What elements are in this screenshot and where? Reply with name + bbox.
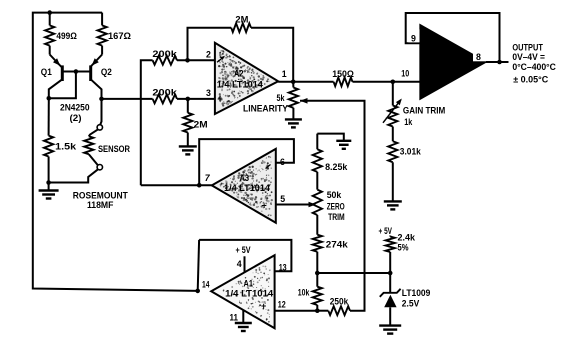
node base junction [74,69,79,74]
svg-text:+ 5V: + 5V [236,245,251,256]
svg-text:2M: 2M [235,15,248,26]
ground below 2M [179,146,197,154]
svg-text:118MF: 118MF [87,200,114,211]
svg-text:0°C–400°C: 0°C–400°C [512,62,556,73]
node 274k bottom [315,271,320,276]
transistor Q1 [50,55,62,68]
A1 pin 4 supply stub [244,256,246,273]
potentiometer 5k LINEARITY [292,82,294,88]
op-amp A3 body [212,149,276,223]
svg-text:200k: 200k [152,87,177,98]
node top rail junction [47,10,52,15]
transistor Q2 [90,55,102,68]
wire Q1-Q2 base tie [62,71,90,73]
svg-text:250k: 250k [330,296,349,307]
node gain trim tap [391,80,396,85]
svg-text:3: 3 [206,88,211,98]
svg-text:LINEARITY: LINEARITY [243,103,289,114]
wire feedback down to output [251,28,293,82]
resistor 167ohm [101,13,103,26]
wire 200k to pin3 [177,98,215,100]
ground top of chain [317,134,344,141]
svg-text:10k: 10k [298,287,310,298]
svg-text:5: 5 [280,194,285,204]
node pin3 junction [186,97,191,102]
potentiometer GAIN TRIM 1k [392,82,394,106]
node A4 feedback junction [497,60,502,65]
resistor 1.5k [48,98,50,135]
svg-text:2.5V: 2.5V [402,298,420,309]
svg-text:9: 9 [411,34,416,44]
A1 pin 11 ground stub [242,310,244,323]
svg-text:2: 2 [206,50,211,60]
potentiometer 50k ZERO TRIM [313,190,322,215]
svg-text:(2): (2) [70,113,82,124]
node Q2 collector / sensor top [99,97,104,102]
svg-text:+: + [217,94,223,105]
wire A3 output to 200k upper (left vertical) [141,60,153,185]
resistor 250k [317,310,328,312]
wire reference node tie [317,272,390,274]
node A3 output [197,183,202,188]
ground below 3.01k [384,201,402,209]
A4 feedback loop [406,13,500,62]
svg-text:11: 11 [230,312,239,322]
svg-text:6: 6 [280,157,285,167]
svg-text:Q1: Q1 [41,67,53,78]
ground below 1.5k [48,183,50,191]
node 1.5k bottom [46,180,51,185]
svg-text:+ 5V: + 5V [379,226,393,237]
resistor 3.01k [392,127,394,142]
svg-text:A1: A1 [244,278,254,288]
svg-text:ZERO: ZERO [327,201,345,212]
wire A2 output [278,81,333,83]
svg-text:2N4250: 2N4250 [60,102,90,113]
svg-text:1: 1 [282,69,287,79]
5k wiper arrow and wire to 250k [300,98,308,104]
op-amp A2 body [215,43,278,114]
wire A1 pin12 [275,310,318,312]
svg-text:13: 13 [279,263,287,273]
svg-text:167Ω: 167Ω [108,31,131,42]
svg-text:5%: 5% [398,243,409,254]
node LT1009 cathode [388,271,393,276]
svg-text:A3: A3 [240,173,250,183]
svg-text:274k: 274k [326,239,349,250]
wire sensor node to A2 pin3 [102,98,153,100]
svg-text:1k: 1k [404,117,412,128]
wire sensor top lead [100,99,101,125]
svg-text:150Ω: 150Ω [332,69,354,80]
svg-text:1/4 LT1014: 1/4 LT1014 [224,183,271,193]
svg-text:GAIN TRIM: GAIN TRIM [403,106,445,117]
ground below 5k [285,119,302,127]
resistor 2M to ground [187,99,189,113]
svg-text:+: + [261,301,266,311]
svg-text:4: 4 [237,259,242,269]
svg-text:14: 14 [202,279,210,289]
svg-text:1/4 LT1014: 1/4 LT1014 [217,79,264,89]
resistor 200k lower [153,95,177,104]
svg-text:Q2: Q2 [101,67,112,78]
node Q1 collector [47,96,52,101]
svg-text:SENSOR: SENSOR [98,144,130,155]
ground below LT1009 [379,326,401,334]
A3 feedback loop [199,139,294,185]
op-amp A4 output buffer [420,25,486,99]
svg-text:10: 10 [401,69,409,79]
resistor 2M feedback [231,23,251,32]
resistor 10k [316,273,318,287]
svg-text:+: + [262,201,267,211]
label pin 9 [408,29,419,42]
wire A3 output [141,184,212,186]
resistor 150ohm [334,77,353,86]
op-amp A1 body [211,255,274,328]
sensor element [89,129,98,136]
svg-text:8: 8 [476,52,481,62]
svg-text:200k: 200k [152,49,177,60]
node pin2 junction [185,58,190,63]
node A1 output [195,289,200,294]
sensor terminal bottom circle [97,165,102,170]
zener diode LT1009 [389,273,391,293]
node A2 output [291,80,296,85]
wire feedback up [188,28,232,61]
wire 200k to pin2 [177,59,215,61]
sensor terminal top circle [97,125,102,130]
A1 feedback loop [198,240,199,291]
wire sensor bottom lead [49,169,98,182]
svg-text:± 0.05°C: ± 0.05°C [513,74,548,85]
ground below pin 11 [235,323,252,331]
svg-text:1.5k: 1.5k [55,142,77,153]
label pin 8 [473,51,486,62]
node 10k bottom / A1 pin12 [315,308,320,313]
svg-text:A2: A2 [234,69,244,79]
resistor 200k upper [153,56,177,65]
svg-text:3.01k: 3.01k [400,147,422,158]
wire A4 output [486,61,509,63]
svg-text:12: 12 [278,299,286,309]
svg-text:2M: 2M [194,120,208,131]
wire A3 pin5 to zero trim wiper [276,204,311,206]
wire left long feedback rail (A1 output to mirror top) [33,13,198,291]
wire 150ohm to pin10 [353,81,421,83]
svg-text:499Ω: 499Ω [56,31,77,42]
resistor 274k [313,235,322,252]
wire base to Q1 collector (diode connection) [49,72,76,99]
svg-text:50k: 50k [327,190,342,201]
A2 inverting input mark [217,57,224,63]
resistor 8.25k [316,134,318,150]
svg-text:8.25k: 8.25k [325,162,348,173]
svg-text:1/4 LT1014: 1/4 LT1014 [225,288,274,298]
resistor 2.4k 5% [389,236,391,237]
resistor 499ohm [49,13,51,26]
A3 inverting mark [266,165,271,169]
svg-text:TRIM: TRIM [328,212,345,223]
